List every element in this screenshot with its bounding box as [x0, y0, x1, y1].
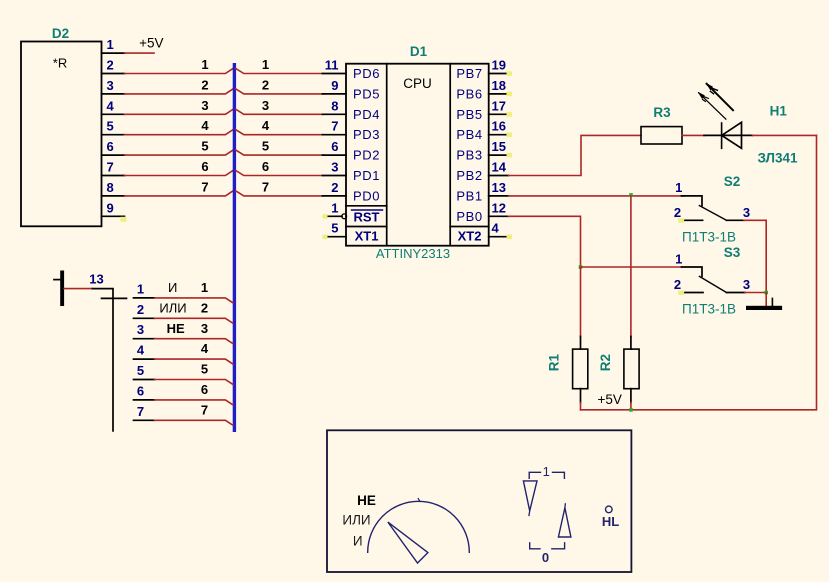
SECTION-D2	[21, 26, 233, 226]
SECTION-CONN2	[54, 271, 233, 431]
svg-text:RST: RST	[354, 209, 380, 224]
pin stub D1 pin 11 PD6	[323, 58, 381, 82]
wire D2 pin5 to bus	[125, 130, 234, 135]
svg-text:НЕ: НЕ	[167, 321, 185, 336]
switch S2	[682, 196, 745, 220]
svg-text:И: И	[168, 280, 177, 295]
position 1 bracket	[529, 472, 564, 478]
wire bus to D1 pin 8	[236, 109, 323, 114]
label D1	[410, 44, 428, 59]
svg-text:PB7: PB7	[456, 66, 482, 81]
svg-text:2: 2	[201, 77, 208, 92]
bus wire number 2 left	[201, 77, 208, 92]
right rail wire	[581, 135, 817, 409]
wire D2 pin3 to bus	[125, 89, 234, 94]
SECTION-D1	[236, 44, 512, 261]
pin 5 XT1	[323, 221, 379, 244]
svg-text:1: 1	[675, 252, 682, 267]
label I	[353, 534, 363, 549]
svg-text:3: 3	[743, 277, 750, 292]
pin 7 of D2	[102, 160, 125, 176]
pin 6 of D2	[102, 139, 125, 155]
SECTION-RIGHT	[509, 83, 817, 412]
svg-text:HL: HL	[602, 514, 619, 529]
svg-text:4: 4	[492, 221, 500, 236]
svg-text:1: 1	[137, 281, 144, 296]
label P1T3-1B of S2	[682, 230, 736, 245]
LED H1	[722, 122, 742, 148]
LED H1 lead	[704, 134, 753, 136]
wire bus to D1 pin 6	[236, 150, 323, 155]
svg-text:PD6: PD6	[353, 66, 380, 81]
connector pin 4 row	[134, 341, 234, 364]
svg-text:17: 17	[492, 98, 506, 113]
bus wire number 3 left	[201, 98, 208, 113]
pin stub D1 pin 13 PB1	[456, 180, 508, 204]
svg-text:2: 2	[331, 180, 338, 195]
wire D2 pin7 to bus	[125, 171, 234, 176]
svg-text:7: 7	[201, 179, 208, 194]
svg-text:PB0: PB0	[456, 209, 482, 224]
svg-text:XT2: XT2	[458, 229, 482, 244]
connector pin 2 row (ILI)	[134, 300, 234, 323]
bus wire number 4 left	[201, 118, 209, 133]
wire PB0 down to S3	[509, 216, 581, 267]
pin 1 of D2	[102, 37, 125, 53]
label ATTINY2313	[376, 246, 450, 261]
svg-text:16: 16	[492, 119, 506, 134]
svg-text:S2: S2	[724, 174, 741, 189]
bus wire number 6 left	[201, 159, 208, 174]
wire bus to D1 pin 7	[236, 130, 323, 135]
wire junction to R1	[580, 267, 582, 337]
label NE	[357, 493, 376, 508]
svg-text:3: 3	[107, 78, 114, 93]
svg-text:5: 5	[107, 119, 114, 134]
wire bus to D1 pin 2	[236, 191, 323, 196]
pin 3 of D2	[102, 78, 125, 94]
pin stub D1 pin 3 PD1	[323, 160, 381, 184]
svg-text:S3: S3	[724, 245, 741, 260]
wire PB2 to R3	[509, 135, 642, 175]
S2 pin labels	[674, 180, 750, 220]
svg-text:4: 4	[107, 98, 115, 113]
svg-text:9: 9	[107, 200, 114, 215]
bus wire number 7 left	[201, 179, 208, 194]
svg-text:PB6: PB6	[456, 86, 482, 101]
wire LED to right rail	[753, 134, 817, 136]
connector pin 1 row (I)	[134, 280, 234, 303]
wire bus to D1 pin 3	[236, 171, 323, 176]
svg-text:8: 8	[107, 180, 114, 195]
wire 13 from bar	[64, 288, 92, 290]
pin stub D1 pin 14 PB2	[456, 160, 508, 184]
svg-text:1: 1	[675, 180, 682, 195]
svg-text:3: 3	[743, 205, 750, 220]
svg-text:ИЛИ: ИЛИ	[159, 300, 186, 315]
pin 1 RST with inversion bubble	[323, 200, 383, 224]
svg-text:7: 7	[137, 404, 144, 419]
svg-text:ATTINY2313: ATTINY2313	[376, 246, 450, 261]
label R3	[653, 105, 671, 120]
bus wire number 5 left	[201, 139, 208, 154]
label P1T3-1B of S3	[682, 302, 736, 317]
svg-text:7: 7	[107, 160, 114, 175]
svg-text:6: 6	[331, 139, 338, 154]
svg-text:3: 3	[201, 321, 208, 336]
bus wire number 5 right	[262, 139, 269, 154]
svg-text:PB5: PB5	[456, 107, 482, 122]
svg-text:1: 1	[262, 57, 269, 72]
svg-text:2: 2	[201, 300, 208, 315]
svg-text:12: 12	[492, 200, 506, 215]
value label *R	[53, 56, 67, 71]
pin stub D1 pin 12 PB0	[456, 200, 508, 224]
junction S3 pin3	[764, 291, 768, 295]
svg-text:13: 13	[492, 180, 506, 195]
svg-text:3: 3	[331, 160, 338, 175]
svg-text:2: 2	[137, 302, 144, 317]
connector pin 5 row	[134, 362, 234, 385]
pin stub D1 pin 4 XT2	[458, 221, 512, 244]
svg-text:ЗЛ341: ЗЛ341	[757, 151, 798, 166]
svg-text:PD0: PD0	[353, 188, 380, 203]
svg-text:R3: R3	[653, 105, 671, 120]
svg-text:1: 1	[331, 200, 338, 215]
svg-text:6: 6	[201, 159, 208, 174]
switch S3	[682, 267, 745, 293]
svg-text:PB4: PB4	[456, 127, 482, 142]
svg-text:5: 5	[201, 362, 208, 377]
svg-text:2: 2	[107, 58, 114, 73]
svg-text:14: 14	[492, 160, 507, 175]
bus wire number 6 right	[262, 159, 269, 174]
wire bus to D1 pin 11	[236, 69, 323, 74]
svg-text:PB1: PB1	[456, 188, 482, 203]
svg-text:R1: R1	[547, 353, 562, 371]
connector bar	[54, 271, 64, 307]
svg-text:PD1: PD1	[353, 168, 380, 183]
pin stub D1 pin 7 PD3	[323, 119, 381, 143]
svg-text:6: 6	[262, 159, 269, 174]
SECTION-BUS	[201, 57, 270, 432]
pin 2 of D2	[102, 58, 125, 74]
bus wire number 1 right	[262, 57, 269, 72]
wire junction to R2	[630, 196, 632, 337]
wire D2 pin8 to bus	[125, 191, 234, 196]
S2 pin2 no-connect marker	[678, 218, 684, 223]
label 1	[543, 464, 550, 479]
svg-text:5: 5	[262, 139, 269, 154]
lamp circle	[606, 506, 613, 513]
connector pin 6 row	[134, 382, 234, 405]
svg-text:ИЛИ: ИЛИ	[342, 513, 370, 528]
svg-text:XT1: XT1	[355, 229, 379, 244]
connector pin 7 row	[134, 402, 234, 425]
svg-text:3: 3	[137, 322, 144, 337]
svg-text:19: 19	[492, 58, 506, 73]
svg-text:П1Т3-1В: П1Т3-1В	[682, 302, 736, 317]
svg-text:4: 4	[201, 341, 209, 356]
connector pin 3 row (NE)	[134, 321, 234, 344]
wire R3 to LED	[682, 134, 704, 136]
net label +5V bottom	[597, 392, 621, 407]
black net line with tick	[93, 289, 127, 431]
resistor network D2	[21, 42, 102, 227]
svg-text:1: 1	[107, 37, 114, 52]
svg-text:5: 5	[201, 139, 208, 154]
resistor R2	[624, 337, 639, 410]
wire D2 pin2 to bus	[125, 69, 234, 74]
svg-text:6: 6	[201, 382, 208, 397]
legend box	[327, 430, 631, 572]
net +5V wire from D2 pin 1	[125, 52, 155, 54]
label D2	[52, 26, 69, 41]
svg-text:PD5: PD5	[353, 86, 380, 101]
S3 pin labels	[674, 252, 750, 293]
svg-text:2: 2	[674, 205, 681, 220]
svg-text:PD2: PD2	[353, 148, 380, 163]
SECTION-BOTTOM	[327, 430, 631, 572]
wire D2 pin4 to bus	[125, 109, 234, 114]
net label +5V	[139, 36, 163, 51]
svg-text:3: 3	[262, 98, 269, 113]
pin stub D1 pin 2 PD0	[323, 180, 381, 204]
junction R2/+5V rail	[629, 408, 633, 412]
svg-text:PD3: PD3	[353, 127, 380, 142]
svg-text:+5V: +5V	[597, 392, 621, 407]
lever down triangle	[523, 481, 537, 516]
svg-text:PB3: PB3	[456, 148, 482, 163]
svg-text:5: 5	[331, 221, 338, 236]
svg-text:2: 2	[674, 277, 681, 292]
label CPU	[403, 76, 432, 91]
svg-text:1: 1	[201, 280, 208, 295]
label 0	[542, 550, 549, 565]
lever up triangle	[558, 504, 571, 537]
svg-text:9: 9	[331, 78, 338, 93]
pin 8 of D2	[102, 180, 125, 196]
pin 4 of D2	[102, 98, 125, 114]
svg-text:11: 11	[325, 58, 339, 73]
label 13	[89, 272, 103, 287]
svg-text:И: И	[353, 534, 363, 549]
svg-text:7: 7	[331, 119, 338, 134]
wire PB1 to S2 pin 1	[509, 195, 684, 197]
wire S3 pin3 to junction	[745, 292, 766, 294]
label S3	[724, 245, 741, 260]
svg-text:8: 8	[331, 98, 338, 113]
svg-text:4: 4	[262, 118, 270, 133]
label ZL341	[757, 151, 798, 166]
label R2	[598, 354, 613, 371]
pin 9 of D2	[102, 200, 127, 222]
wire S3 pin3 to ground	[765, 293, 767, 306]
pin stub D1 pin 8 PD4	[323, 98, 381, 122]
svg-text:3: 3	[201, 98, 208, 113]
label H1	[770, 104, 788, 119]
svg-text:4: 4	[201, 118, 209, 133]
svg-text:НЕ: НЕ	[357, 493, 376, 508]
label S2	[724, 174, 741, 189]
wire D2 pin6 to bus	[125, 150, 234, 155]
svg-text:7: 7	[262, 179, 269, 194]
svg-text:1: 1	[201, 57, 208, 72]
svg-text:5: 5	[137, 363, 144, 378]
svg-text:*R: *R	[53, 56, 67, 71]
svg-text:18: 18	[492, 78, 506, 93]
pin stub D1 pin 19 PB7	[456, 58, 512, 82]
pin stub D1 pin 15 PB3	[456, 139, 512, 163]
position 0 bracket	[530, 543, 565, 549]
pin stub D1 pin 18 PB6	[456, 78, 512, 102]
bus wire number 4 right	[262, 118, 270, 133]
pin 5 of D2	[102, 119, 125, 135]
bus wire number 2 right	[262, 77, 269, 92]
svg-text:CPU: CPU	[403, 76, 432, 91]
svg-text:13: 13	[89, 272, 103, 287]
svg-text:R2: R2	[598, 354, 613, 371]
dial arc	[368, 499, 470, 553]
dial needle	[388, 522, 428, 563]
svg-text:2: 2	[262, 77, 269, 92]
svg-text:PD4: PD4	[353, 107, 380, 122]
pin stub D1 pin 17 PB5	[456, 98, 512, 122]
CPU box D1	[346, 64, 489, 246]
bus wire number 1 left	[201, 57, 208, 72]
svg-text:D2: D2	[52, 26, 69, 41]
svg-text:П1Т3-1В: П1Т3-1В	[682, 230, 736, 245]
wire bus to D1 pin 9	[236, 89, 323, 94]
pin stub D1 pin 9 PD5	[323, 78, 381, 102]
LED emission arrow 1	[706, 83, 733, 110]
ground	[746, 298, 782, 310]
label R1	[547, 353, 562, 371]
svg-text:6: 6	[137, 383, 144, 398]
svg-text:PB2: PB2	[456, 168, 482, 183]
pin stub D1 pin 6 PD2	[323, 139, 381, 163]
LED emission arrow 2	[698, 92, 726, 120]
label ILI	[342, 513, 370, 528]
junction PB1/R2	[629, 193, 633, 197]
bus	[233, 63, 236, 432]
junction PB0/S3/R1	[579, 265, 583, 269]
bus wire number 3 right	[262, 98, 269, 113]
bus wire number 7 right	[262, 179, 269, 194]
svg-text:15: 15	[492, 139, 506, 154]
svg-text:D1: D1	[410, 44, 428, 59]
pin stub D1 pin 16 PB4	[456, 119, 512, 143]
svg-text:6: 6	[107, 139, 114, 154]
svg-text:0: 0	[542, 550, 549, 565]
label HL	[602, 514, 619, 529]
svg-text:1: 1	[543, 464, 550, 479]
svg-text:+5V: +5V	[139, 36, 163, 51]
svg-text:4: 4	[137, 343, 145, 358]
svg-text:H1: H1	[770, 104, 788, 119]
resistor R3	[641, 127, 682, 144]
wire junction to S3 pin 1	[581, 266, 682, 268]
S3 pin2 no-connect marker	[678, 291, 684, 296]
wire S2 pin3 to S3 pin3	[744, 220, 766, 292]
svg-text:7: 7	[201, 402, 208, 417]
resistor R1	[573, 337, 588, 410]
